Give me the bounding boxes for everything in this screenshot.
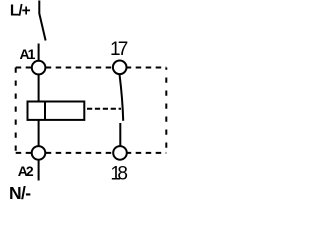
svg-text:A2: A2 bbox=[18, 163, 34, 179]
svg-text:A1: A1 bbox=[20, 46, 36, 62]
svg-text:L/+: L/+ bbox=[10, 3, 31, 20]
svg-text:17: 17 bbox=[110, 39, 128, 60]
svg-text:N/-: N/- bbox=[9, 183, 31, 203]
